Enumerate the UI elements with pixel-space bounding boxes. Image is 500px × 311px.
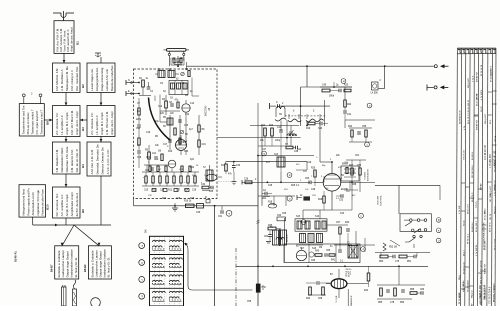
svg-text:A.V.C. A.V.C. A.V.C.: A.V.C. A.V.C. A.V.C.	[106, 149, 110, 175]
table dense lower-right entries	[480, 144, 497, 305]
aerial socket with plug arrow (top)	[434, 64, 448, 68]
svg-text:C49: C49	[307, 162, 312, 164]
svg-text:A.M. 452 kHz A.M.: A.M. 452 kHz A.M.	[105, 111, 109, 135]
svg-text:C30: C30	[196, 212, 201, 214]
svg-text:C38: C38	[294, 151, 299, 153]
svg-text:G.S 44 907 98: G.S 44 907 98	[485, 144, 487, 160]
r.f. amplifier valve section (EC92) with parts	[160, 95, 190, 115]
small smudge labels right section	[262, 149, 360, 248]
bottom right R/C cluster	[377, 266, 425, 304]
block B5 (A.M. detector + A.V.C.)	[87, 142, 111, 176]
block B9 (A.F. amplifier)	[53, 187, 86, 218]
svg-text:98 1.7: 98 1.7	[463, 249, 465, 256]
svg-text:Melangeur F.M. Me: Melangeur F.M. Me	[65, 66, 69, 91]
wire B1 to B2 with arrow	[63, 53, 66, 63]
resistor R17 and capacitor C33	[221, 162, 241, 176]
wire tuner output to S20 inductor	[217, 137, 301, 139]
svg-text:C12: C12	[158, 106, 163, 108]
valve V4 ECL86 output	[326, 269, 369, 306]
svg-text:Ratiodetektor Ratio: Ratiodetektor Ratio	[60, 147, 64, 172]
terminals (gramophone input) above block B8	[22, 92, 41, 104]
svg-text:C43: C43	[318, 128, 323, 130]
svg-text:R13: R13	[162, 198, 167, 200]
wire B8 to B3 with arrow	[44, 119, 52, 122]
node U circled mid	[301, 220, 306, 225]
svg-text:d(6) 283 9: d(6) 283 9	[463, 281, 465, 292]
component on A.F. bus near tuner	[268, 202, 277, 209]
svg-text:S0 25: S0 25	[481, 106, 483, 112]
screen resistors right of V2	[346, 160, 366, 182]
svg-text:F.M. Detektor F.M.: F.M. Detektor F.M.	[55, 149, 59, 173]
svg-text:R40: R40	[315, 251, 320, 253]
node D circled	[226, 210, 232, 216]
svg-text:B3: B3	[81, 127, 85, 131]
svg-text:A.M. Det. A.M. A.M.: A.M. Det. A.M. A.M.	[90, 149, 94, 174]
svg-text:W(L) 44: W(L) 44	[472, 290, 474, 298]
grid leak parts left of V2	[305, 168, 323, 187]
wire bus below tuner to switch unit	[134, 199, 259, 206]
capacitor C31 under bus	[218, 206, 223, 218]
cluster under S20	[285, 144, 299, 153]
svg-text:R14: R14	[184, 190, 189, 192]
extra tuner value labels	[136, 83, 195, 200]
svg-text:S19 455: S19 455	[287, 234, 289, 242]
valve V3 EABC80 detector unit box	[284, 244, 360, 263]
wire vertical x281 oscillator	[280, 121, 282, 151]
wire oscillator to V2	[242, 172, 310, 185]
svg-text:C14: C14	[185, 114, 190, 116]
FM dipole aerial bar	[164, 49, 190, 52]
svg-text:F.M. mixing st. F: F.M. mixing st. F	[70, 70, 74, 91]
svg-text:B2: B2	[81, 84, 85, 88]
svg-text:c: c	[184, 182, 185, 184]
svg-text:C46: C46	[293, 135, 298, 137]
svg-text:Ampli. M.F. Ampli.: Ampli. M.F. Ampli.	[65, 112, 69, 135]
wire F.M. I.F. output from tuner	[206, 161, 307, 181]
svg-text:R23: R23	[269, 125, 274, 127]
wire B9 to bus	[65, 218, 67, 225]
A.F. bus wire with arrow	[33, 217, 111, 226]
junction dots on bus	[214, 205, 216, 207]
svg-text:GR 78: GR 78	[477, 93, 479, 100]
earth socket with plug arrow	[427, 85, 448, 91]
svg-text:R28: R28	[318, 199, 323, 201]
svg-text:B4: B4	[81, 164, 85, 168]
svg-text:4 7d SW 96: 4 7d SW 96	[476, 244, 478, 256]
svg-text:KW AF NF: KW AF NF	[483, 263, 486, 274]
resistor R1 and capacitor C4 at tuner input	[139, 78, 154, 96]
svg-text:Z.F. Verstark. Z.F: Z.F. Verstark. Z.F	[90, 113, 94, 135]
svg-text:INDICATOR: INDICATOR	[367, 169, 370, 181]
volume control label rotated	[378, 195, 383, 206]
output transformer T2 dark blob	[347, 243, 358, 259]
svg-text:LA 590: LA 590	[371, 92, 379, 95]
svg-text:96 3d LW: 96 3d LW	[485, 210, 487, 220]
small parts row far bottom-right	[410, 289, 425, 295]
r.f. parts under band filter	[306, 122, 328, 130]
table rotated text column entries	[459, 64, 497, 310]
node E circled	[287, 196, 292, 201]
svg-text:96 3d LW 16: 96 3d LW 16	[468, 99, 470, 112]
block B1 (F.M. aerial amplifier stage)	[54, 21, 80, 54]
svg-text:C25: C25	[144, 190, 149, 192]
svg-text:C36: C36	[244, 179, 249, 181]
resistors inside tuner right column	[198, 115, 207, 155]
svg-text:C55: C55	[247, 301, 252, 303]
cluster above T1	[277, 215, 286, 262]
wire B7 to B5 with arrow	[100, 137, 103, 143]
svg-text:1M: 1M	[158, 151, 161, 153]
block B4 (F.M. detector / ratio detector)	[53, 142, 86, 174]
svg-text:F.M. Mischst. F.M: F.M. Mischst. F.M	[55, 68, 59, 91]
aerial input filter coils S1 S2	[155, 69, 179, 78]
svg-text:C57: C57	[336, 222, 341, 224]
svg-text:Et. final y Et. Et.: Et. final y Et. Et.	[74, 257, 78, 278]
svg-text:A.F. amplifier A.F: A.F. amplifier A.F	[60, 194, 64, 216]
A.M. aerial coil S9 scalloped	[275, 106, 286, 121]
drawing: mains plug and cable	[62, 280, 77, 306]
input stub terminals left of tuner (A.M. aerial connections)	[126, 80, 140, 96]
aerial down-lead wire	[301, 65, 352, 126]
cluster at detector take-off	[262, 190, 272, 197]
junction node on aerial bus	[384, 65, 386, 67]
svg-text:R21: R21	[262, 198, 267, 200]
svg-text:C78: C78	[390, 302, 395, 304]
waveband switch table SK1	[150, 236, 184, 306]
svg-text:C41: C41	[347, 114, 352, 116]
svg-text:C29: C29	[192, 190, 197, 192]
svg-text:96.318 44: 96.318 44	[472, 222, 474, 232]
svg-text:W T6 20.18: W T6 20.18	[459, 292, 461, 304]
wire from bus to lamp unit	[379, 66, 385, 88]
svg-text:R24: R24	[347, 104, 352, 106]
oscillator coil pack S13	[274, 150, 285, 172]
svg-text:C24: C24	[190, 167, 195, 169]
svg-text:C68: C68	[318, 298, 323, 300]
wire top of switch area	[375, 185, 440, 214]
svg-text:C27: C27	[176, 190, 181, 192]
svg-text:I.F. amplifier I.F: I.F. amplifier I.F	[60, 115, 64, 135]
dash-dot mechanical link line	[235, 248, 237, 306]
capacitor C53 near V2	[336, 194, 344, 201]
drawing: dial lamp	[91, 298, 101, 308]
main aerial bus wire to A.M. aerial socket	[187, 65, 434, 67]
svg-text:98 1.78 G.S: 98 1.78 G.S	[468, 112, 470, 124]
node A circled top right	[341, 79, 346, 84]
svg-text:775.75.03: 775.75.03	[464, 150, 466, 160]
antenna matching cluster dense parts	[171, 58, 184, 68]
svg-text:4 7d S: 4 7d S	[473, 75, 475, 82]
svg-text:4 7d SW 96: 4 7d SW 96	[495, 184, 497, 196]
svg-text:R50: R50	[379, 261, 384, 263]
coupling parts left of V4	[306, 281, 330, 300]
svg-text:B5X88A STEREO: B5X88A STEREO	[493, 283, 496, 302]
svg-text:Ampli. B.F. Ampli.: Ampli. B.F. Ampli.	[65, 194, 69, 217]
svg-text:S15: S15	[340, 213, 345, 215]
resistor R35 horizontal	[268, 225, 281, 230]
inductor S19 loops	[276, 234, 289, 242]
svg-text:4 7d SW: 4 7d SW	[459, 205, 461, 214]
svg-text:C13: C13	[190, 103, 195, 105]
wire split to loudspeaker blocks	[61, 225, 101, 246]
svg-text:TUNING: TUNING	[365, 171, 367, 180]
tone control network bottom right	[375, 253, 430, 264]
svg-text:Pick-up et clavier: Pick-up et clavier	[26, 112, 30, 134]
svg-text:C26: C26	[160, 190, 165, 192]
svg-text:96.318 4: 96.318 4	[472, 151, 474, 160]
svg-text:C47: C47	[262, 149, 267, 151]
node K circled	[367, 103, 372, 108]
svg-text:C56: C56	[282, 213, 287, 215]
block B6 (A.M. aerial input stage)	[87, 63, 115, 93]
svg-text:C50: C50	[305, 178, 310, 180]
block B6-B7 (loudspeaker left channel)	[50, 246, 79, 279]
valve V2 ECH81 mixer	[314, 162, 349, 200]
svg-text:C58: C58	[362, 126, 367, 128]
tuning indicator coupling box	[341, 164, 359, 191]
node F circled	[365, 142, 370, 147]
block B8-B9 (loudspeaker right channel)	[83, 246, 111, 279]
svg-text:R44: R44	[364, 290, 369, 292]
svg-text:GR 78: GR 78	[490, 213, 492, 220]
svg-text:C48: C48	[311, 189, 316, 191]
svg-text:z: z	[143, 177, 144, 179]
block B8 (gramophone preamp)	[19, 104, 49, 136]
block B10 (power supply)	[19, 185, 49, 217]
svg-text:Eingangsstufe Ein: Eingangsstufe Ein	[95, 67, 99, 91]
svg-text:9146 41 362: 9146 41 362	[480, 285, 482, 298]
svg-text:C18: C18	[137, 157, 142, 159]
capacitor C30 on bus	[196, 197, 210, 214]
svg-text:R35: R35	[268, 225, 273, 227]
wire B3 to B4 with arrow	[65, 137, 68, 143]
svg-text:R34: R34	[348, 126, 353, 128]
wire B4 to B9 with arrow	[65, 174, 68, 187]
wire B3-B7 link arrow	[80, 119, 87, 122]
svg-text:S14: S14	[297, 149, 302, 151]
svg-text:C23: C23	[184, 151, 189, 153]
svg-text:Amplificador Ampli: Amplificador Ampli	[70, 192, 74, 216]
svg-text:F.M. 10.7 MHz F.M.: F.M. 10.7 MHz F.M.	[70, 110, 74, 135]
I.F. transformer can S15	[295, 216, 327, 231]
svg-text:C16: C16	[146, 132, 151, 134]
svg-text:CR.58: CR.58	[495, 135, 497, 142]
svg-text:KW AF NF: KW AF NF	[476, 71, 479, 82]
svg-text:S15: S15	[296, 216, 301, 218]
tuner internal ground hatch	[172, 203, 178, 211]
dotted screen line	[218, 181, 233, 183]
svg-text:R51: R51	[407, 261, 412, 263]
oscillator coil S11 scalloped	[306, 111, 324, 122]
svg-text:C19: C19	[202, 144, 207, 146]
output coil S7 right side of tuner	[203, 165, 213, 186]
svg-text:Etage entree Etag: Etage entree Etag	[100, 67, 104, 91]
tuner mid vertical wires	[147, 78, 199, 173]
value labels around mixer V2	[284, 157, 356, 200]
mixer grid parts R9 C21	[144, 145, 168, 172]
svg-text:Tomavistas y tecl T: Tomavistas y tecl T	[39, 110, 43, 135]
svg-text:R32: R32	[345, 222, 350, 224]
svg-text:96.318 44 90: 96.318 44 90	[490, 69, 492, 82]
capacitor C40 and resistor R20 cluster	[320, 82, 352, 98]
svg-text:W(L) 4407: W(L) 4407	[490, 185, 492, 196]
wire B2 to B3 with arrow	[65, 93, 68, 106]
tuning indicator label	[365, 169, 370, 181]
svg-text:Banda de onda Ban: Banda de onda Ban	[110, 65, 114, 91]
svg-text:S0 250 AC9: S0 250 AC9	[466, 280, 469, 292]
svg-text:WANDLER: WANDLER	[350, 295, 353, 306]
svg-text:5.7(L)B: 5.7(L)B	[336, 295, 338, 302]
svg-text:W(L) 4407: W(L) 4407	[468, 77, 470, 88]
svg-text:9146 41: 9146 41	[14, 251, 18, 262]
wire B6 to B7 with arrow	[100, 93, 103, 106]
svg-text:S17: S17	[300, 248, 305, 250]
svg-text:5K: 5K	[144, 229, 148, 233]
ground symbol under C62	[266, 242, 271, 244]
svg-text:W(L): W(L)	[459, 275, 461, 280]
block B2 (F.M. mixer stage)	[53, 63, 86, 93]
svg-text:R18: R18	[268, 202, 273, 204]
svg-text:96.318 44 9: 96.318 44 9	[463, 262, 465, 274]
scale lamp LA1	[371, 80, 382, 95]
svg-text:775.75: 775.75	[476, 201, 478, 208]
A.F. coupling bus wire	[236, 265, 428, 267]
I.F. transformer can S3 (r.f. stage)	[169, 79, 188, 100]
mixer valve V1b circle	[176, 135, 187, 155]
cathode resistor R44 and bypass	[364, 266, 370, 292]
svg-text:R16 1k: R16 1k	[184, 201, 192, 203]
table header rotated entries	[458, 49, 497, 54]
svg-text:Tastensatz switch T: Tastensatz switch T	[31, 109, 35, 134]
svg-text:C20: C20	[146, 157, 151, 159]
svg-text:B10: B10	[45, 204, 49, 210]
svg-text:Detector Detector De: Detector Detector De	[101, 147, 105, 175]
svg-text:W(L) 4407: W(L) 4407	[485, 113, 487, 124]
vertical feed wire to output stage	[214, 206, 216, 306]
wire horizontal feed y155	[257, 103, 314, 156]
svg-text:B1: B1	[76, 41, 80, 45]
svg-text:Tonabnehmer und Ton: Tonabnehmer und Ton	[22, 105, 26, 134]
svg-text:390k: 390k	[329, 96, 335, 98]
svg-text:Lineal stage Line: Lineal stage Line	[90, 69, 94, 91]
svg-text:86 (L): 86 (L)	[345, 276, 350, 278]
left side output transformer T1	[270, 227, 287, 246]
svg-text:1.78 d(6) 283: 1.78 d(6) 283	[490, 154, 492, 168]
voltage/parts table frame	[456, 48, 496, 306]
svg-text:P.U. input keybd P.: P.U. input keybd P.	[35, 110, 39, 134]
svg-text:KW AF NF: KW AF NF	[476, 119, 479, 130]
aerial terminal and coupling capacitor C42	[270, 102, 330, 109]
mechanical coupling bracket to switch	[184, 243, 253, 290]
svg-text:entrada A.M. entr: entrada A.M. entr	[105, 69, 109, 91]
cluster below-left of tuner exit	[201, 184, 214, 193]
svg-text:9146 41 ST: 9146 41 ST	[494, 238, 496, 250]
junction dots right section	[280, 125, 353, 184]
node R circled	[287, 173, 292, 178]
svg-text:N.F. Verstark. N.F: N.F. Verstark. N.F	[55, 193, 59, 216]
junction HT rail and A.F. bus	[257, 265, 259, 267]
svg-text:R10: R10	[168, 151, 173, 153]
svg-text:98 1.78 G: 98 1.78 G	[472, 192, 474, 202]
svg-text:Detecteur F.M. Dete: Detecteur F.M. Dete	[65, 146, 69, 172]
svg-text:R19: R19	[306, 128, 311, 130]
wires and parts left column (A.M. section)	[250, 125, 299, 146]
detector diode parts right of S16	[327, 222, 352, 245]
wire HT top rail to clusters	[258, 120, 375, 156]
svg-text:KW AF NF 162: KW AF NF 162	[494, 150, 497, 166]
resistor R16 on bus	[184, 201, 194, 208]
svg-text:C51: C51	[355, 155, 360, 157]
svg-text:WM.CL 907 44: WM.CL 907 44	[485, 284, 487, 300]
svg-text:Alimentation et Ali: Alimentation et Ali	[31, 192, 35, 215]
svg-text:Netzgeraet und Netz: Netzgeraet und Netz	[22, 188, 26, 215]
svg-text:Det. de rel. Det. D: Det. de rel. Det. D	[75, 149, 79, 172]
svg-text:4 7d SW 9: 4 7d SW 9	[481, 89, 483, 100]
extra wires around V2	[296, 162, 352, 210]
node T circled mid	[359, 213, 364, 218]
vertical rail x258 (HT feed)	[257, 156, 259, 307]
oscillator tuned circuit parts	[160, 115, 194, 150]
node P circled	[436, 228, 441, 233]
svg-text:W: W	[439, 219, 441, 221]
svg-text:C45: C45	[268, 185, 273, 187]
svg-text:R15: R15	[190, 198, 195, 200]
block B7 (I.F. amplifier A.M.)	[87, 106, 115, 137]
svg-text:R20: R20	[344, 85, 349, 87]
wire band filter to gang	[291, 121, 307, 147]
svg-text:1M: 1M	[319, 247, 322, 249]
svg-text:I.F. amplifier I.F: I.F. amplifier I.F	[95, 115, 99, 135]
svg-text:B8: B8	[45, 121, 49, 125]
svg-text:de B.F. de de de d: de B.F. de de de d	[75, 193, 79, 217]
svg-text:C40: C40	[322, 85, 327, 87]
svg-text:B9: B9	[81, 209, 85, 213]
wire screen rail	[348, 182, 375, 200]
svg-text:Z.F. Verstark. Z.F: Z.F. Verstark. Z.F	[55, 113, 59, 135]
svg-text:R58: R58	[410, 289, 415, 291]
svg-text:Fuente de alim Fuen: Fuente de alim Fuen	[41, 189, 45, 216]
svg-text:R38: R38	[352, 184, 357, 186]
gang capacitor dashed mechanical link	[285, 115, 326, 117]
svg-text:R56: R56	[400, 302, 405, 304]
wire corner from link to bus	[235, 265, 237, 267]
svg-text:C65: C65	[326, 250, 331, 252]
switch section labels circled	[139, 243, 145, 299]
wire vertical x262 (AGC line)	[261, 126, 263, 206]
svg-text:C31: C31	[218, 216, 223, 218]
trimmer C3 and coupling parts	[181, 62, 190, 77]
svg-text:W(L) 44: W(L) 44	[495, 206, 497, 214]
mechanical tuning drive heavy curve	[149, 98, 171, 141]
node U circled	[436, 238, 441, 243]
potentiometer R53 zigzag	[383, 240, 400, 251]
svg-text:regulateur 6V3 regu: regulateur 6V3 regu	[36, 190, 40, 216]
inductor S20 near HT	[287, 120, 296, 144]
svg-text:Ampl. de ant. Ampl.: Ampl. de ant. Ampl.	[69, 27, 73, 52]
svg-text:A.M. Oszillator A: A.M. Oszillator A	[60, 69, 64, 90]
type label block above V4	[345, 269, 351, 277]
svg-text:R41: R41	[331, 260, 336, 262]
svg-text:98 1.78 G.: 98 1.78 G.	[490, 222, 492, 232]
svg-text:R55: R55	[378, 302, 383, 304]
ground under C33	[232, 172, 237, 185]
svg-text:C15: C15	[184, 125, 189, 127]
svg-text:R30: R30	[262, 287, 267, 289]
svg-text:C63: C63	[277, 215, 282, 217]
extra tuner bottom labels	[143, 141, 206, 197]
resistor R30 on HT rail	[247, 284, 266, 303]
rail break ticks	[257, 220, 260, 224]
